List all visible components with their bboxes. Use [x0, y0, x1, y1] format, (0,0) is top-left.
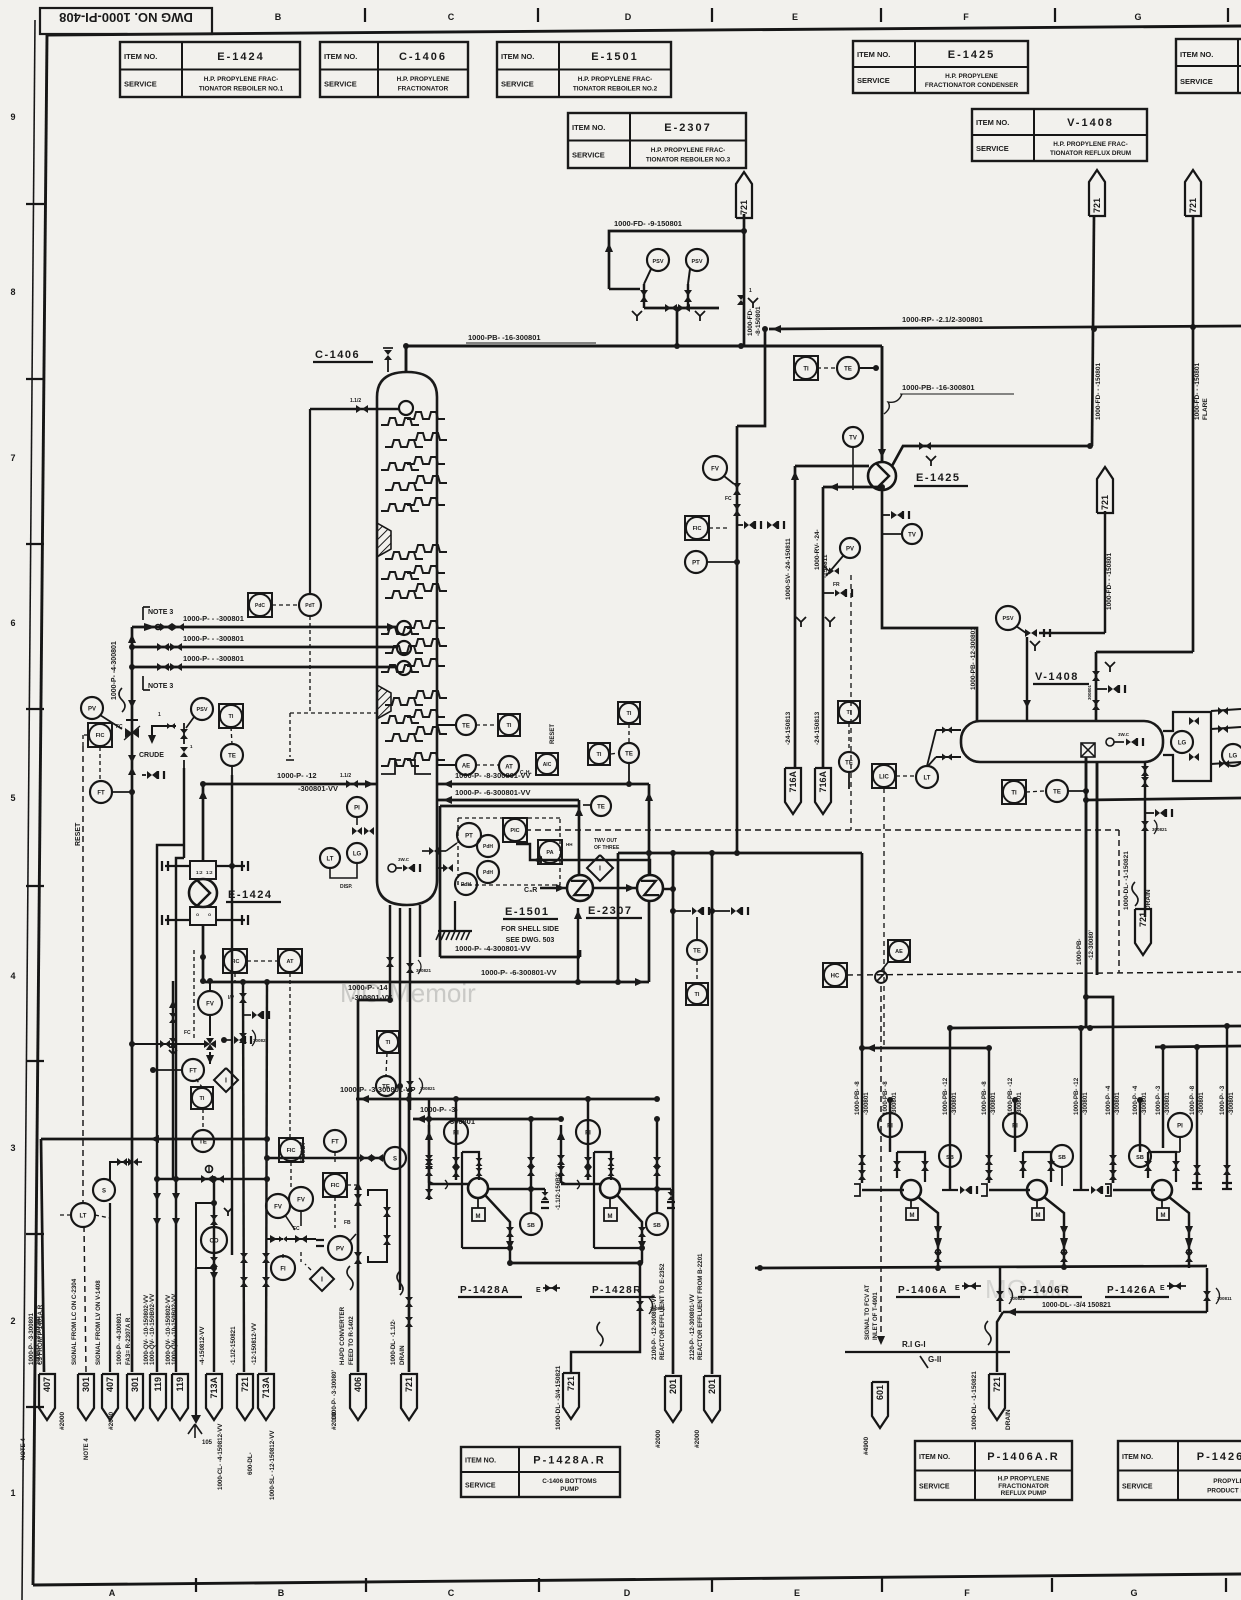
instrument PIC reboiler	[503, 818, 527, 842]
squiggle feed	[119, 688, 125, 712]
dwg-no box	[40, 8, 212, 34]
svg-text:1:2: 1:2	[196, 870, 203, 875]
valve PSV header isolation	[665, 304, 671, 312]
svg-text:-300801-VV: -300801-VV	[298, 784, 338, 793]
svg-text:1000-P- -4-300801: 1000-P- -4-300801	[111, 641, 118, 700]
connector 301 x86	[78, 1374, 94, 1420]
svg-text:TE: TE	[845, 760, 853, 766]
drain connector 721 mid	[1135, 909, 1151, 955]
instrument TI 283	[271, 1256, 295, 1280]
svg-text:CRUDE: CRUDE	[139, 752, 164, 759]
svg-text:M: M	[1036, 1213, 1041, 1219]
svg-text:SERVICE: SERVICE	[857, 76, 890, 85]
svg-text:3: 3	[10, 1143, 15, 1153]
svg-text:TI: TI	[507, 723, 512, 729]
instrument TI drum	[1002, 780, 1026, 804]
svg-text:PRODUCT PUMP: PRODUCT PUMP	[1207, 1488, 1241, 1495]
svg-text:TI: TI	[386, 1040, 391, 1046]
svg-text:1000-P- -4: 1000-P- -4	[1105, 1085, 1112, 1115]
svg-text:-300801: -300801	[1141, 1092, 1148, 1115]
exchanger E-1424	[189, 879, 217, 907]
svg-text:C-1406 BOTTOMS: C-1406 BOTTOMS	[542, 1478, 597, 1485]
svg-text:C: C	[448, 1588, 455, 1598]
svg-text:E: E	[792, 12, 798, 22]
column C-1406 shell	[377, 372, 437, 905]
wire 110 drop	[109, 1203, 111, 1372]
svg-text:FRACTIONATOR CONDENSER: FRACTIONATOR CONDENSER	[925, 82, 1019, 89]
svg-text:TIONATOR REBOILER NO.2: TIONATOR REBOILER NO.2	[573, 85, 658, 92]
svg-text:P-1426A: P-1426A	[1107, 1285, 1157, 1296]
svg-text:1000-P- -4-300801: 1000-P- -4-300801	[116, 1313, 123, 1366]
instrument TV E-1425	[843, 427, 863, 447]
valve colbtm drain3	[406, 1081, 414, 1086]
wire drain to 721	[1144, 875, 1146, 917]
wire feed line 3	[132, 666, 398, 669]
instrument TI col4 right	[838, 701, 860, 723]
svg-text:PI: PI	[453, 1130, 459, 1136]
valve drum top vent2	[1092, 671, 1100, 676]
wire PSV to flare 721	[1104, 511, 1106, 633]
svg-text:OF THREE: OF THREE	[594, 845, 620, 851]
reducer feed2	[128, 755, 136, 763]
wire header 1028	[950, 1026, 1241, 1028]
svg-text:AE: AE	[462, 763, 470, 769]
svg-text:1000-P- -3-: 1000-P- -3-	[420, 1105, 458, 1114]
title block E-2307	[568, 113, 746, 168]
svg-text:NOTE 3: NOTE 3	[148, 609, 173, 616]
dashed instr box E1501	[458, 817, 560, 819]
svg-text:1000-P- -3-300801: 1000-P- -3-300801	[28, 1313, 35, 1366]
connector 721 pump 1406	[989, 1374, 1005, 1420]
wire riser 618	[617, 853, 620, 982]
wire 1406 hdr drop2	[1206, 1268, 1208, 1312]
instrument PdAH-3	[455, 873, 477, 895]
svg-text:-12-30080’: -12-30080’	[1088, 930, 1095, 960]
label hapd drop	[347, 1266, 353, 1290]
svg-text:-300801: -300801	[1016, 1092, 1023, 1115]
valve 737 lateral	[744, 521, 749, 529]
svg-text:TV: TV	[908, 532, 916, 538]
svg-text:1: 1	[749, 288, 752, 294]
level gauge LG1	[1171, 731, 1193, 753]
connector 721 pump 1428	[563, 1373, 579, 1419]
svg-text:3W.C: 3W.C	[1118, 732, 1130, 737]
svg-text:1000-P- - -300801: 1000-P- - -300801	[183, 654, 244, 663]
instrument S 110	[93, 1179, 115, 1201]
svg-text:ITEM NO.: ITEM NO.	[857, 50, 890, 59]
instrument TI col1	[498, 714, 520, 736]
svg-text:FIC: FIC	[231, 959, 240, 965]
title block E-1424	[120, 42, 300, 97]
svg-text:SIGNAL TO FCV AT: SIGNAL TO FCV AT	[865, 1285, 871, 1340]
wire dash fic335	[334, 1197, 336, 1228]
svg-text:FV: FV	[711, 466, 719, 472]
wire feed line 2	[132, 646, 398, 649]
connector 713A x214	[206, 1374, 222, 1420]
svg-text:FRACTIONATOR: FRACTIONATOR	[398, 85, 449, 92]
svg-text:-300801: -300801	[951, 1092, 958, 1115]
svg-text:SERVICE: SERVICE	[976, 144, 1009, 153]
svg-text:-24-150813: -24-150813	[814, 711, 821, 745]
instrument PI colbtm	[347, 797, 367, 817]
wire crude sample	[152, 726, 176, 742]
svg-text:I: I	[225, 1078, 227, 1085]
svg-text:ITEM NO.: ITEM NO.	[919, 1454, 950, 1461]
PSV 1406-A	[647, 249, 669, 271]
svg-text:H.P. PROPYLENE: H.P. PROPYLENE	[945, 73, 999, 80]
svg-text:1000-P- -3-30080’: 1000-P- -3-30080’	[331, 1370, 338, 1421]
svg-text:716A: 716A	[788, 770, 798, 792]
wire RP branch down	[737, 329, 765, 426]
svg-text:NOTE 4: NOTE 4	[84, 1438, 90, 1460]
svg-text:D: D	[624, 1588, 631, 1598]
svg-text:ITEM NO.: ITEM NO.	[501, 52, 534, 61]
svg-text:HAPD CONVERTER: HAPD CONVERTER	[339, 1306, 346, 1365]
wire drum btm east line	[1086, 798, 1241, 800]
wire diamond dash	[300, 1252, 302, 1262]
wire to 721 bottom mid	[571, 1342, 640, 1372]
wire dashed 853 box	[852, 578, 854, 830]
svg-text:1000-PB- -12-300801: 1000-PB- -12-300801	[970, 627, 977, 690]
svg-text:PI: PI	[887, 1123, 893, 1129]
svg-text:-24-150813: -24-150813	[785, 711, 792, 745]
svg-text:RESET: RESET	[301, 1142, 307, 1162]
exchanger E-1501	[567, 875, 593, 901]
svg-text:1000-FD- -9-150801: 1000-FD- -9-150801	[614, 219, 682, 228]
svg-text:716A: 716A	[818, 770, 828, 792]
instrument PT reboiler	[457, 823, 481, 847]
svg-text:P-1406A.R: P-1406A.R	[987, 1451, 1059, 1463]
valve ip lateral	[234, 1036, 239, 1044]
svg-text:1000-PB- -12: 1000-PB- -12	[942, 1077, 949, 1115]
svg-text:1000-PB- -16-300801: 1000-PB- -16-300801	[902, 383, 975, 392]
svg-text:300821: 300821	[416, 968, 432, 973]
svg-text:7: 7	[10, 453, 15, 463]
svg-text:SIGNAL FROM LC ON C-2304: SIGNAL FROM LC ON C-2304	[71, 1278, 78, 1365]
wire LT to drum	[936, 729, 961, 731]
svg-text:1: 1	[10, 1488, 15, 1498]
wire PSV outlets to flare	[657, 231, 659, 252]
svg-text:FIC: FIC	[693, 526, 702, 532]
svg-text:721: 721	[1188, 198, 1198, 213]
wire 214 drop	[213, 1179, 215, 1372]
instrument PV reflux	[840, 538, 860, 558]
wire drum boot drain	[1144, 762, 1146, 875]
level gauge LG2	[1222, 744, 1241, 766]
wire PSV inlet header	[676, 308, 679, 346]
svg-text:1000-PB- -16-300801: 1000-PB- -16-300801	[468, 333, 541, 342]
svg-text:TE: TE	[693, 948, 701, 954]
instrument FT 335	[324, 1130, 346, 1152]
svg-text:SERVICE: SERVICE	[919, 1483, 950, 1490]
svg-text:P-1428R: P-1428R	[592, 1285, 642, 1296]
svg-text:G: G	[1134, 12, 1141, 22]
wire fic dashes	[234, 973, 236, 981]
svg-text:PT: PT	[465, 833, 473, 839]
wire drum jog	[1086, 997, 1113, 1183]
valve 737 control	[733, 483, 741, 489]
wire reboiler box	[439, 806, 442, 957]
instrument FV ip	[198, 991, 222, 1015]
svg-text:#2000: #2000	[108, 1412, 115, 1430]
svg-text:1000-P- - -300801: 1000-P- - -300801	[183, 634, 244, 643]
svg-text:1000-P- -14: 1000-P- -14	[348, 983, 388, 992]
instrument TI 990	[686, 983, 708, 1005]
instrument PI 1406R	[1003, 1113, 1027, 1137]
svg-text:AT: AT	[287, 959, 295, 965]
svg-text:E-2307: E-2307	[588, 905, 632, 917]
svg-text:PV: PV	[336, 1246, 344, 1252]
svg-text:FC: FC	[725, 496, 732, 502]
connector 601	[872, 1382, 888, 1428]
instrument FIC 335	[323, 1173, 347, 1197]
svg-text:6: 6	[10, 618, 15, 628]
SB 1426A	[1129, 1145, 1151, 1167]
svg-text:C₃H₆: C₃H₆	[520, 770, 532, 776]
title block partial right	[1176, 39, 1241, 93]
connector 721 x409	[401, 1374, 417, 1420]
pump P-1426A	[1152, 1180, 1172, 1200]
svg-text:C-1406: C-1406	[315, 349, 360, 361]
svg-text:E-1424: E-1424	[228, 889, 272, 901]
wire signal FCV dashed	[880, 986, 882, 1345]
svg-text:AE: AE	[895, 949, 903, 955]
svg-text:TV: TV	[849, 435, 857, 441]
connector 721 x245	[237, 1374, 253, 1420]
column top vapor nozzle	[397, 621, 411, 635]
svg-text:PI: PI	[354, 805, 360, 811]
wire col btm line 8in	[437, 783, 649, 786]
svg-text:1000-QV- -10-150B02-VV: 1000-QV- -10-150B02-VV	[149, 1293, 156, 1365]
svg-text:PSV: PSV	[196, 707, 207, 713]
svg-text:-300801: -300801	[1228, 1092, 1235, 1115]
svg-text:PI: PI	[1177, 1123, 1183, 1129]
svg-text:ITEM NO.: ITEM NO.	[976, 118, 1009, 127]
connector 201 A	[665, 1376, 681, 1422]
svg-text:TE: TE	[597, 804, 605, 810]
wire C3R inlet	[540, 887, 567, 889]
svg-text:1000-QV- -10-150B02-VV: 1000-QV- -10-150B02-VV	[171, 1293, 178, 1365]
svg-text:S: S	[393, 1156, 397, 1162]
valve 737 lateral2	[767, 521, 772, 529]
wire header 1000-P-3	[413, 1118, 561, 1121]
svg-text:-300801: -300801	[891, 1092, 898, 1115]
wire 1000-RP-2.5-300801	[769, 326, 1241, 329]
instrument FV pair A	[266, 1194, 290, 1218]
wire PT leaders	[446, 843, 457, 851]
wire E-1501 btm riser	[577, 908, 579, 980]
valve drain lateral	[1155, 809, 1160, 817]
wire E-1425 vap inlet branch	[875, 346, 877, 461]
svg-text:REFLUX PUMP: REFLUX PUMP	[1001, 1490, 1048, 1497]
svg-text:HC: HC	[831, 973, 840, 979]
title block E-1501	[497, 42, 671, 97]
svg-text:FRACTIONATOR: FRACTIONATOR	[998, 1483, 1049, 1490]
valve E-1425 outlet	[919, 442, 925, 450]
svg-text:TI: TI	[229, 714, 234, 720]
svg-text:B: B	[278, 1588, 285, 1598]
title block P-1426A.R	[1118, 1441, 1241, 1500]
instrument TE col1	[456, 715, 476, 735]
svg-text:PSV: PSV	[652, 259, 663, 265]
diamond I ip	[214, 1068, 238, 1092]
instrument PT 737	[685, 551, 707, 573]
svg-text:R.I G-I: R.I G-I	[902, 1340, 926, 1349]
earth ground E-1501	[454, 901, 456, 930]
svg-text:ITEM NO.: ITEM NO.	[465, 1458, 496, 1465]
pump P-1428R	[561, 1125, 565, 1184]
svg-text:4: 4	[10, 971, 15, 981]
wire 266 valves	[262, 1253, 270, 1258]
wire dashed 830	[525, 829, 1119, 831]
instrument AT col	[499, 756, 519, 776]
wire riser x1227	[1226, 1026, 1228, 1190]
wire header 1048	[861, 1047, 989, 1050]
wire E-1425 outlet	[892, 446, 1090, 466]
instrument S 395	[384, 1147, 406, 1169]
wire discharge header 1406	[755, 1266, 1207, 1268]
wire 1000-P-12-300801-VV	[203, 783, 377, 786]
svg-text:-4-150812-VV: -4-150812-VV	[199, 1326, 206, 1365]
svg-text:FI: FI	[280, 1266, 286, 1272]
svg-text:TE: TE	[382, 1084, 390, 1090]
E-1424 channel top	[190, 861, 216, 879]
svg-text:1000-P- - -300801: 1000-P- - -300801	[183, 614, 244, 623]
svg-text:PIC: PIC	[510, 828, 519, 834]
vessel V-1408	[961, 721, 1163, 762]
svg-text:TI: TI	[695, 992, 700, 998]
svg-text:TE: TE	[844, 366, 852, 372]
drum internal nozzle	[1106, 738, 1114, 746]
instrument TE colbtm2	[376, 1076, 396, 1096]
instrument FV 737	[703, 456, 727, 480]
svg-text:407: 407	[42, 1377, 52, 1392]
svg-text:1000-PB- -8: 1000-PB- -8	[854, 1081, 861, 1115]
svg-text:S: S	[102, 1188, 106, 1194]
wire reject dashed	[82, 746, 84, 1100]
svg-text:PA: PA	[546, 850, 553, 856]
svg-text:TE: TE	[228, 753, 236, 759]
svg-text:H.P. PROPYLENE FRAC-: H.P. PROPYLENE FRAC-	[578, 76, 652, 83]
svg-text:3W.C: 3W.C	[398, 857, 410, 862]
svg-text:D: D	[625, 12, 632, 22]
wire 1406 hdr drop1	[999, 1268, 1001, 1312]
svg-text:P-1406A: P-1406A	[898, 1285, 948, 1296]
svg-text:SERVICE: SERVICE	[1180, 77, 1213, 86]
svg-text:1000-DL- -1.1/2-: 1000-DL- -1.1/2-	[390, 1319, 397, 1365]
svg-text:TI: TI	[847, 710, 852, 716]
wire co bypass	[196, 1203, 214, 1268]
svg-text:H.P. PROPYLENE: H.P. PROPYLENE	[397, 76, 451, 83]
svg-text:PdH: PdH	[483, 844, 493, 850]
instrument FE inline	[192, 1130, 214, 1152]
svg-text:AT: AT	[505, 764, 513, 770]
wire E-2307 right stub	[662, 888, 673, 890]
svg-text:1000-DL- -3/4-150821: 1000-DL- -3/4-150821	[555, 1365, 562, 1430]
connector 201 B	[704, 1376, 720, 1422]
svg-text:FEED TO R-1402: FEED TO R-1402	[348, 1316, 355, 1365]
connector 407 x110	[102, 1374, 118, 1420]
svg-text:119: 119	[175, 1377, 185, 1392]
column trays	[381, 418, 419, 425]
column wall hatch lower	[377, 685, 391, 719]
svg-text:REACTOR EFFLUENT FROM B-2201: REACTOR EFFLUENT FROM B-2201	[697, 1253, 704, 1360]
wire drum bottoms	[1096, 762, 1099, 975]
wire crude feed riser	[131, 627, 134, 1372]
instrument TV E-1425 lower	[902, 524, 922, 544]
svg-text:E-1424: E-1424	[217, 51, 264, 63]
svg-text:NOTE 3: NOTE 3	[148, 683, 173, 690]
svg-text:#2000: #2000	[655, 1430, 662, 1448]
wire 358 bypass	[368, 1190, 387, 1262]
svg-text:TE: TE	[199, 1139, 207, 1145]
svg-text:HH: HH	[566, 842, 573, 847]
wire 1000-PB-16-300801 overhead line	[406, 345, 882, 348]
instrument PA reboiler	[538, 840, 562, 864]
svg-text:FIC: FIC	[331, 1183, 340, 1189]
instrument TI colbtm2	[377, 1031, 399, 1053]
valve 263a	[360, 1154, 366, 1162]
svg-text:1000-DL- -1-150821: 1000-DL- -1-150821	[971, 1371, 978, 1430]
wire PdT riser	[309, 409, 311, 594]
svg-text:105: 105	[202, 1440, 213, 1446]
vent SV line	[796, 617, 806, 622]
wire left web 173	[172, 981, 174, 1179]
wire E-1425 bottom outlet	[882, 490, 977, 721]
title block V-1408	[972, 109, 1147, 161]
svg-text:H.P. PROPYLENE FRAC-: H.P. PROPYLENE FRAC-	[204, 76, 278, 83]
svg-text:ITEM NO.: ITEM NO.	[1122, 1454, 1153, 1461]
pump P-1406R	[1027, 1180, 1047, 1200]
wire 1428 drain drop	[639, 1263, 641, 1276]
svg-text:REACTOR EFFLUENT TO E-2352: REACTOR EFFLUENT TO E-2352	[659, 1263, 666, 1360]
svg-text:300821: 300821	[420, 1086, 436, 1091]
wire 1000-FD-9-150801 flare header	[609, 231, 744, 289]
svg-text:300801: 300801	[1087, 684, 1092, 700]
wire riser x890	[889, 1100, 891, 1152]
svg-text:TWV OUT: TWV OUT	[594, 838, 617, 844]
wire E-1501 to E-2307	[593, 887, 637, 889]
svg-text:1000-FD- - -150801: 1000-FD- - -150801	[1095, 363, 1102, 420]
wire riser x862	[861, 1048, 863, 1183]
valve PSV-A inlet	[640, 290, 648, 296]
svg-text:FV: FV	[206, 1001, 214, 1007]
svg-text:-8-150801: -8-150801	[755, 306, 762, 336]
svg-text:DRAIN: DRAIN	[1145, 889, 1152, 910]
svg-text:9: 9	[10, 112, 15, 122]
instrument TI col3b	[588, 743, 610, 765]
svg-text:1000-P- -12: 1000-P- -12	[277, 771, 317, 780]
svg-text:1000-PB- -8: 1000-PB- -8	[981, 1081, 988, 1115]
svg-text:1:2: 1:2	[206, 870, 213, 875]
svg-text:1000-RP- -2.1/2-300801: 1000-RP- -2.1/2-300801	[902, 315, 983, 324]
svg-text:TI: TI	[803, 366, 809, 372]
svg-text:E: E	[955, 1285, 960, 1292]
wire drain to 721 right	[997, 1312, 1003, 1372]
wire TE leader	[859, 367, 876, 369]
svg-text:PdT: PdT	[305, 603, 314, 609]
svg-text:M: M	[608, 1214, 613, 1220]
svg-text:SERVICE: SERVICE	[572, 150, 605, 159]
instrument AT e1424	[278, 949, 302, 973]
svg-text:FT: FT	[97, 790, 105, 796]
svg-text:B: B	[275, 12, 282, 22]
valve drum top vent3	[1108, 685, 1113, 693]
valve flare line drain	[737, 295, 745, 300]
wire colbtm drops	[389, 905, 391, 1000]
dashed box e1424	[193, 950, 195, 1040]
valve reboiler vents	[692, 907, 697, 915]
